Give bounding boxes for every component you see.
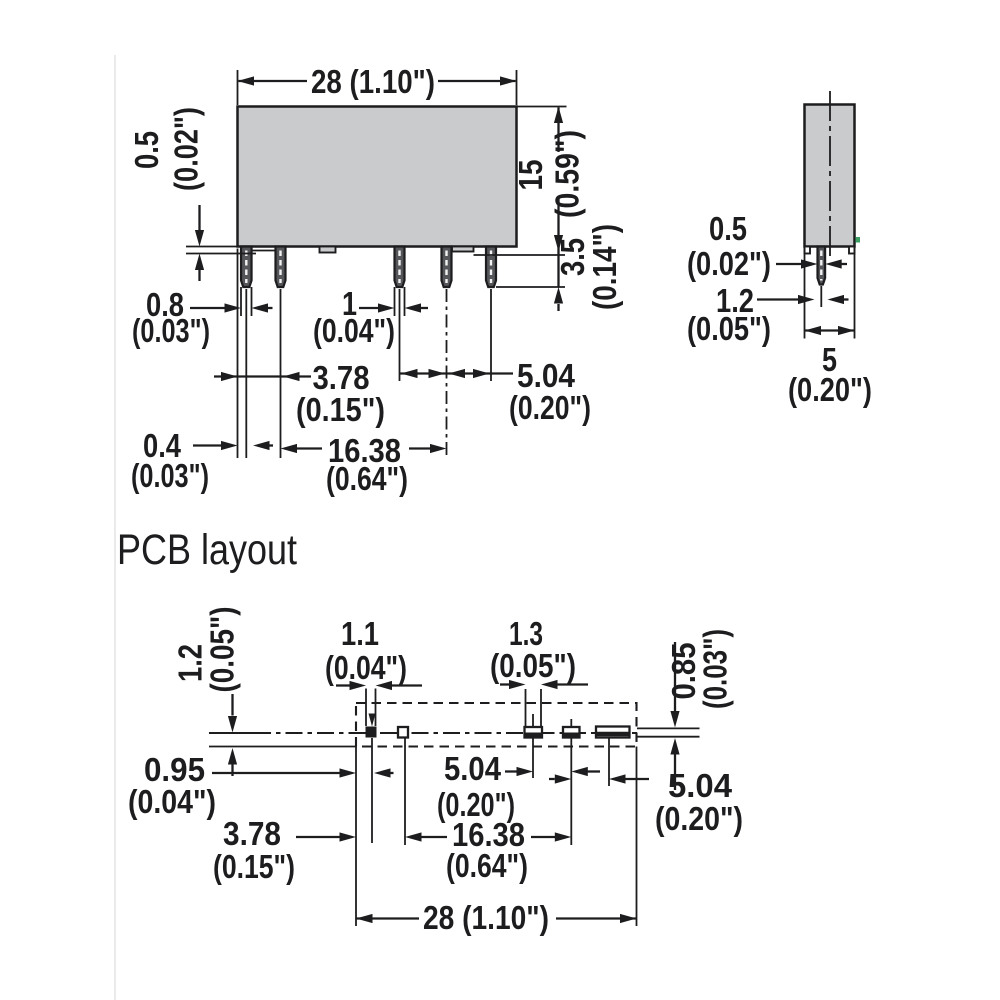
pcb dim 1.3 arrow left — [541, 680, 558, 689]
front view pin 2 — [276, 247, 286, 288]
pcb dim 1.3 arrow right — [509, 680, 526, 689]
svg-text:(0.64"): (0.64") — [326, 460, 408, 497]
dim 0.8 arrow left — [252, 303, 269, 312]
pcb dim 0.85 arrow up — [670, 738, 679, 755]
pcb center line — [209, 732, 254, 734]
pcb pad 4 — [563, 727, 580, 738]
side dim 1.2 tail — [844, 298, 849, 300]
pcb dim 5.04r arrow left — [609, 774, 626, 783]
dim 3.5 arrow up — [554, 287, 563, 304]
shoulder step between pin1 and pin2 — [252, 250, 276, 252]
pcb pad3 center extension down — [532, 714, 534, 726]
pin1 center extension — [245, 289, 247, 458]
svg-text:(0.04"): (0.04") — [128, 783, 216, 820]
pcb pad1 left extension up — [365, 689, 367, 727]
svg-text:3.78: 3.78 — [223, 815, 281, 852]
dim 5.04 arrow right at pin5 — [473, 369, 490, 378]
pcb dashed outline box — [356, 703, 637, 747]
side dim 5 arrow left — [805, 326, 822, 335]
case tab 2 under body — [452, 247, 474, 252]
pcb dim 1.1 tail — [392, 684, 422, 686]
dim 28 extension line right — [516, 70, 518, 105]
dim 3.78 arrow left — [283, 372, 300, 381]
svg-text:(0.15"): (0.15") — [213, 848, 295, 885]
pcb dim 1.3 leader — [500, 683, 509, 685]
pcb bottom reference line left — [209, 746, 356, 748]
dim 1 arrow right — [378, 303, 395, 312]
dim 15 arrow up — [554, 107, 563, 124]
dim 15 arrow down — [554, 235, 563, 252]
dim 28 line right segment — [438, 80, 516, 82]
pcb dim 5.04c arrow right — [517, 767, 534, 776]
pcb pad3 left extension up — [525, 689, 527, 726]
pcb dim 1.1 arrow right — [350, 681, 367, 690]
pcb dim 5.04r left line — [549, 778, 555, 780]
dim 28 extension line left — [237, 70, 239, 105]
svg-text:(0.20"): (0.20") — [788, 371, 872, 408]
pcb dim 16.38 arrow right — [555, 832, 572, 841]
dim 28 arrow left — [238, 76, 255, 85]
pin1 right edge extension — [251, 287, 253, 316]
dim 16.38 left line — [297, 447, 322, 449]
pcb pad3 right extension up — [540, 689, 542, 726]
front view relay body outline — [238, 107, 517, 247]
case tab 1 under body — [320, 247, 336, 253]
side view relay body outline — [805, 105, 855, 247]
pin4 center extension dash-dot — [446, 289, 448, 456]
dim 3.78 line — [214, 375, 311, 377]
pcb dim 1.2 tail — [231, 765, 233, 777]
side dim 5 line — [805, 329, 855, 331]
pcb dim 28 right line — [556, 917, 636, 919]
svg-text:(0.15"): (0.15") — [296, 391, 385, 428]
dim 0.8 leader — [190, 307, 225, 309]
side dim 0.5 arrow left — [825, 259, 842, 268]
pin shoulder line left — [186, 253, 256, 255]
pcb pad1 right extension up — [375, 689, 377, 727]
svg-text:(0.14"): (0.14") — [586, 224, 623, 310]
svg-text:15: 15 — [512, 160, 549, 191]
pcb pad 5 — [596, 727, 630, 738]
front view pin 1 — [241, 247, 252, 288]
dim 0.5 arrow up — [195, 254, 204, 271]
side view left foot — [805, 247, 811, 254]
dim 1 leader — [359, 307, 378, 309]
side view vertical center line — [829, 91, 831, 259]
dim 0.5 lower pointer line — [198, 270, 200, 281]
svg-text:(0.05"): (0.05") — [204, 607, 241, 693]
svg-text:(0.03"): (0.03") — [132, 312, 210, 349]
pcb pad4 center extension down — [570, 719, 572, 726]
dim 15 line upper segment — [557, 108, 559, 153]
pcb pad 3 — [525, 727, 543, 738]
dim 0.5 upper pointer line — [198, 205, 200, 231]
side dim 1.2 arrow left — [828, 295, 845, 304]
pcb pad 2 — [398, 727, 408, 738]
dim 0.4 leader — [193, 444, 221, 446]
side dim 0.5 leader — [776, 263, 801, 265]
pcb dim 3.78 leader — [296, 836, 340, 838]
pin2 center extension — [280, 289, 282, 458]
svg-text:PCB layout: PCB layout — [117, 526, 297, 574]
pcb dim 28 arrow right — [620, 914, 637, 923]
body bottom standoff line left — [186, 246, 238, 248]
side dim 5 arrow right — [838, 326, 855, 335]
pcb pad 1 (filled) — [366, 727, 377, 738]
dim 16.38 arrow left at pin2 — [281, 444, 298, 453]
svg-text:(0.59"): (0.59") — [549, 130, 586, 218]
svg-text:(0.04"): (0.04") — [313, 312, 395, 349]
pin tip line right — [496, 286, 565, 288]
svg-text:0.5: 0.5 — [709, 210, 747, 247]
pin3 center extension — [399, 289, 401, 381]
svg-text:(0.04"): (0.04") — [325, 649, 407, 686]
pcb dim 0.95 tail — [391, 772, 394, 774]
svg-text:5.04: 5.04 — [668, 767, 733, 804]
pcb dim 0.85 tail — [674, 755, 676, 791]
dim 5.04 arrow right at pin4 — [429, 369, 446, 378]
dim 5.04 line — [400, 372, 514, 374]
pin5 center extension — [490, 289, 492, 381]
dim 16.38 right line — [409, 447, 430, 449]
pcb dim 0.95 arrow right — [340, 768, 357, 777]
side dim 1.2 leader — [757, 298, 798, 300]
dim 0.8 tail — [268, 307, 273, 309]
pcb dim 5.04c arrow left — [571, 767, 588, 776]
pcb dim 5.04r arrow right — [555, 774, 572, 783]
pcb dim 1.3 tail — [558, 683, 589, 685]
side dim 0.5 arrow right — [801, 259, 818, 268]
faint page border left — [114, 55, 116, 1000]
pcb dim 0.95 arrow left — [374, 768, 391, 777]
dim 16.38 arrow right at pin4 — [430, 444, 447, 453]
svg-text:(0.20"): (0.20") — [509, 389, 591, 426]
pcb box right edge extension — [636, 747, 638, 927]
svg-text:28 (1.10"): 28 (1.10") — [423, 899, 549, 936]
side body right edge extension — [854, 248, 856, 339]
dim 1 tail — [421, 307, 428, 309]
dim 0.4 arrow left — [253, 441, 270, 450]
dim 15 line lower segment — [557, 197, 559, 287]
dim 15 extension line top — [517, 106, 567, 108]
pcb dim 1.1 arrow left — [376, 681, 393, 690]
pcb pad5 bottom extension right — [637, 736, 700, 738]
pcb dim 1.2 arrow up — [228, 748, 237, 765]
dim 3.78 arrow right — [221, 372, 238, 381]
svg-text:(0.05"): (0.05") — [490, 647, 576, 684]
side dim 1.2 arrow right — [798, 295, 815, 304]
pcb dim 16.38 right line — [531, 836, 555, 838]
dim 0.4 tail — [270, 444, 274, 446]
body left edge extension — [237, 249, 239, 459]
pin3 left edge extension — [394, 287, 396, 316]
svg-text:(0.05"): (0.05") — [687, 310, 771, 347]
dim 5.04 arrow left at pin3 — [401, 369, 418, 378]
side dim 0.5 tail — [842, 263, 848, 265]
pcb dim 1.2 pointer line — [231, 694, 233, 716]
pcb pad5 top extension right — [637, 727, 700, 729]
pcb dim 5.04c tail — [588, 770, 601, 772]
pcb dim 5.04c leader — [505, 770, 517, 772]
pin3 right edge extension — [404, 287, 406, 316]
dim 0.4 arrow right — [221, 441, 238, 450]
pcb pad5 center extension down — [608, 738, 610, 786]
pcb pad2 center extension down — [404, 738, 406, 845]
pcb dim 28 left line — [357, 917, 420, 919]
front view pin 5 — [486, 247, 496, 288]
pcb dim 28 arrow left — [356, 914, 373, 923]
dim 1 arrow left — [405, 303, 422, 312]
front view pin 3 — [395, 247, 405, 288]
pcb dim 0.85 pointer line — [674, 642, 676, 712]
pcb dim 3.78 arrow left — [405, 832, 422, 841]
pcb box left edge extension — [355, 747, 357, 927]
svg-text:5.04: 5.04 — [444, 750, 502, 787]
pcb pad1 center extension down — [371, 738, 373, 843]
pcb dim 3.78 arrow right — [340, 832, 357, 841]
side body left edge extension — [804, 248, 806, 339]
pcb pad1 pointer arrow down — [369, 714, 376, 727]
svg-text:(0.02"): (0.02") — [168, 107, 205, 191]
green mark — [856, 237, 861, 243]
svg-text:(0.64"): (0.64") — [446, 847, 528, 884]
front view pin 4 — [442, 247, 452, 288]
pcb dim 0.95 leader — [212, 772, 340, 774]
pcb dim 5.04r leader — [626, 778, 650, 780]
dim 0.8 arrow right — [225, 303, 242, 312]
pin1 left edge extension — [240, 287, 242, 316]
svg-text:0.5: 0.5 — [128, 131, 165, 169]
dim 5.04 arrow left at pin4 — [449, 369, 466, 378]
svg-text:(0.20"): (0.20") — [655, 800, 743, 837]
dim 0.5 arrow down — [195, 230, 204, 247]
dim 28 line left segment — [239, 80, 308, 82]
svg-text:(0.02"): (0.02") — [687, 245, 771, 282]
pcb dim 1.1 leader — [336, 684, 350, 686]
dim 3.5 tail below — [557, 304, 559, 311]
svg-text:1.1: 1.1 — [341, 615, 379, 652]
svg-text:(0.03"): (0.03") — [131, 457, 209, 494]
dim 28 arrow right — [500, 76, 517, 85]
svg-text:(0.03"): (0.03") — [697, 629, 734, 709]
pcb dim 0.85 arrow down — [670, 711, 679, 728]
svg-text:28 (1.10"): 28 (1.10") — [311, 63, 435, 100]
side view right foot — [849, 247, 855, 254]
side view pin center extension — [820, 286, 822, 307]
pcb dim 16.38 left line — [422, 836, 448, 838]
pin shoulder line right — [474, 254, 566, 256]
pcb dim 1.2 arrow down — [228, 716, 237, 733]
side view pin — [818, 247, 826, 285]
